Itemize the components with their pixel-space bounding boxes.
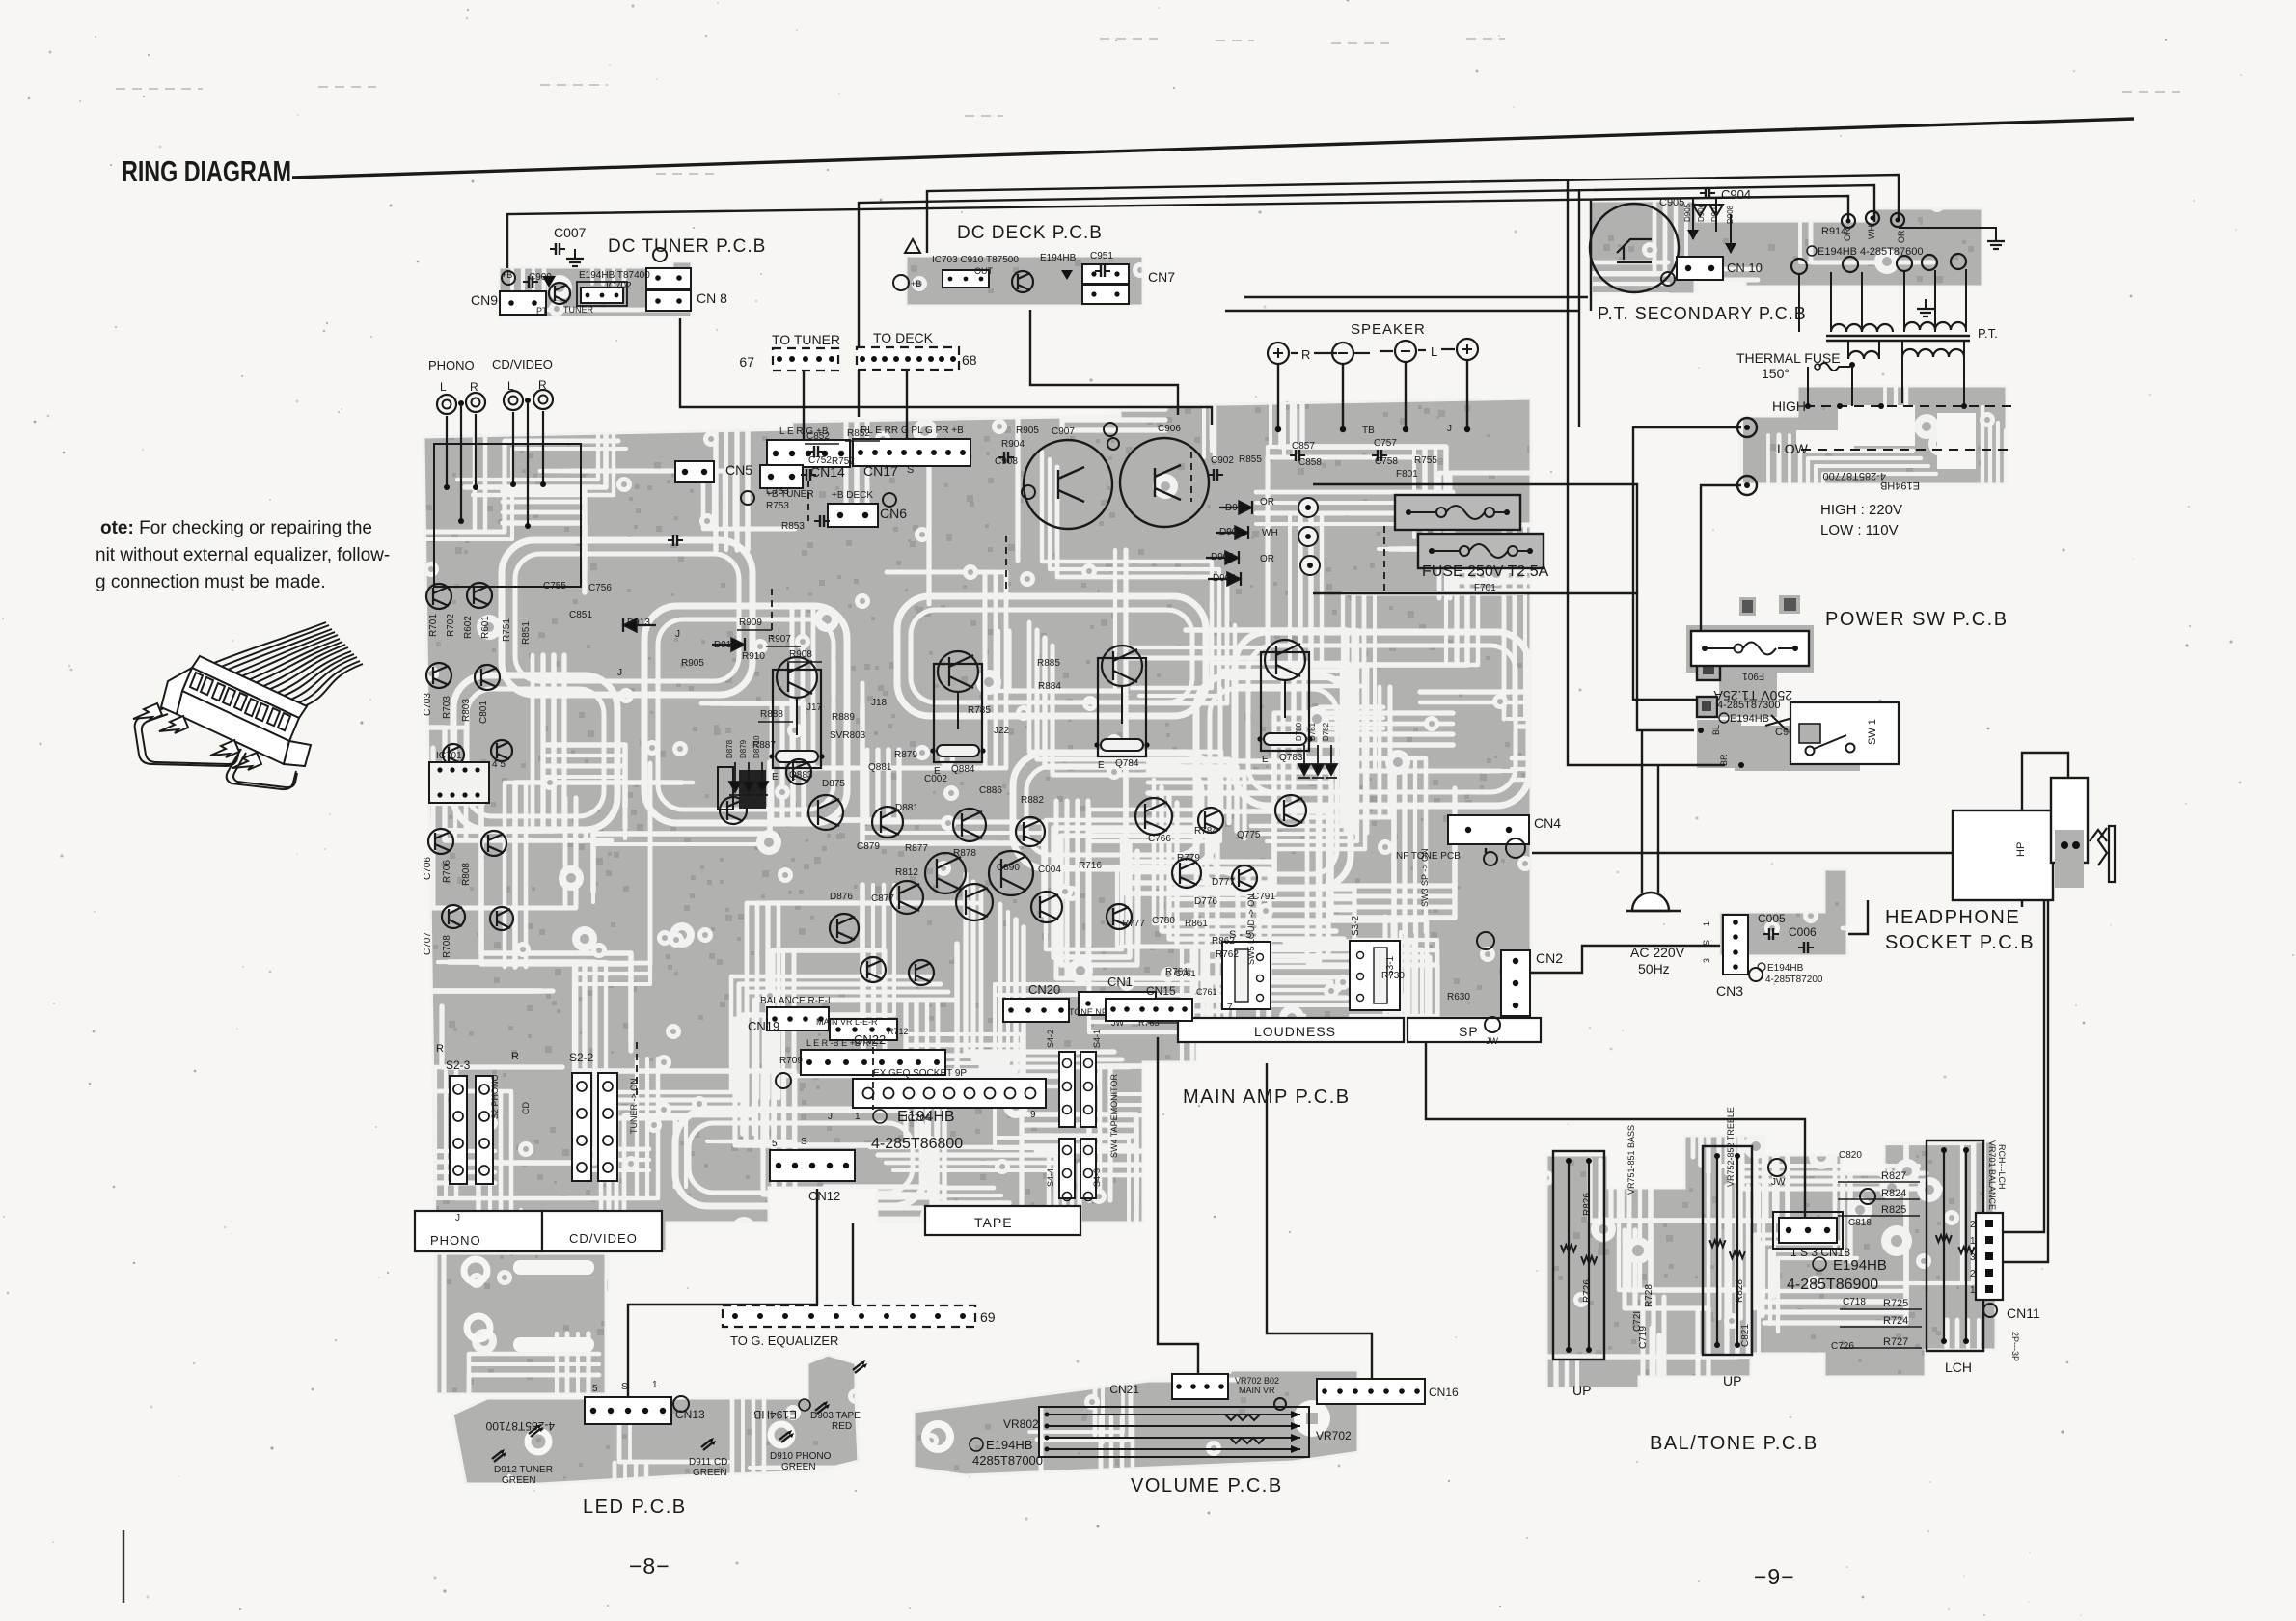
svg-text:R751: R751 <box>502 618 512 642</box>
svg-text:D908: D908 <box>1726 205 1735 224</box>
svg-text:3: 3 <box>1702 958 1711 963</box>
svg-text:CN13: CN13 <box>675 1408 705 1421</box>
svg-text:5: 5 <box>592 1384 598 1394</box>
svg-text:R826: R826 <box>1582 1193 1593 1216</box>
svg-text:SP: SP <box>1459 1024 1479 1039</box>
svg-text:R825: R825 <box>1881 1204 1906 1216</box>
svg-text:C818: C818 <box>1848 1218 1872 1228</box>
svg-text:CN17: CN17 <box>863 463 898 479</box>
svg-text:4285T87000: 4285T87000 <box>972 1453 1043 1468</box>
svg-text:C004: C004 <box>1038 865 1061 875</box>
svg-text:E: E <box>772 772 779 783</box>
svg-text:R716: R716 <box>1079 861 1102 871</box>
svg-text:R: R <box>1301 347 1310 362</box>
svg-text:E194HB: E194HB <box>1730 713 1769 725</box>
svg-text:C005: C005 <box>1758 912 1786 925</box>
svg-text:R908: R908 <box>789 649 812 660</box>
svg-text:D879: D879 <box>739 739 748 758</box>
svg-text:F701: F701 <box>1474 583 1496 593</box>
svg-text:C780: C780 <box>1152 916 1175 926</box>
svg-text:VR702 B02: VR702 B02 <box>1235 1376 1279 1386</box>
svg-text:BR: BR <box>1719 754 1729 766</box>
svg-text:LED P.C.B: LED P.C.B <box>583 1497 687 1518</box>
svg-text:L: L <box>440 380 447 394</box>
svg-text:RL E RR G PL G PR +B: RL E RR G PL G PR +B <box>861 426 964 436</box>
svg-text:150°: 150° <box>1762 366 1790 381</box>
svg-text:C766: C766 <box>1148 834 1171 844</box>
svg-text:F801: F801 <box>1396 469 1418 480</box>
svg-text:J18: J18 <box>871 698 888 708</box>
svg-text:R630: R630 <box>1447 992 1470 1003</box>
svg-text:R852: R852 <box>847 428 870 439</box>
svg-text:R884: R884 <box>1038 681 1061 692</box>
svg-text:C908: C908 <box>995 456 1018 467</box>
svg-text:R882: R882 <box>1021 795 1044 806</box>
svg-text:9: 9 <box>1030 1110 1036 1120</box>
svg-text:4-285T86900: 4-285T86900 <box>1787 1277 1878 1293</box>
svg-text:ote: For checking or repair: ote: For checking or repairing the <box>100 518 372 538</box>
svg-text:D776: D776 <box>1194 896 1217 907</box>
svg-text:D912 TUNER: D912 TUNER <box>494 1465 553 1475</box>
svg-text:J: J <box>617 668 622 678</box>
svg-text:HP: HP <box>2015 842 2027 857</box>
svg-text:WH: WH <box>1262 528 1278 538</box>
svg-text:S: S <box>1702 940 1711 946</box>
svg-text:TO G. EQUALIZER: TO G. EQUALIZER <box>730 1333 838 1348</box>
svg-text:C890: C890 <box>997 863 1020 873</box>
svg-text:R701: R701 <box>428 614 439 637</box>
svg-text:S4-1: S4-1 <box>1092 1030 1102 1048</box>
svg-text:CN7: CN7 <box>1148 269 1175 285</box>
svg-text:D777: D777 <box>1212 877 1235 888</box>
svg-text:CN9: CN9 <box>471 292 498 308</box>
svg-text:C909: C909 <box>529 272 552 283</box>
svg-text:C877: C877 <box>871 893 894 904</box>
svg-text:67: 67 <box>739 354 754 370</box>
svg-text:MAIN VR: MAIN VR <box>1239 1386 1275 1395</box>
svg-text:C752: C752 <box>808 455 832 466</box>
svg-text:1: 1 <box>652 1380 658 1390</box>
svg-text:OR: OR <box>1897 230 1906 243</box>
svg-text:CN 8: CN 8 <box>697 290 727 306</box>
svg-text:RED: RED <box>832 1421 852 1432</box>
svg-text:C879: C879 <box>857 841 880 852</box>
svg-text:JW: JW <box>1486 1036 1499 1046</box>
svg-text:R828: R828 <box>1735 1279 1745 1303</box>
svg-text:J17: J17 <box>806 702 823 713</box>
svg-text:R862: R862 <box>1212 936 1235 947</box>
svg-text:D782: D782 <box>1322 722 1330 741</box>
svg-text:D901: D901 <box>1225 503 1248 513</box>
svg-text:R702: R702 <box>446 614 456 637</box>
svg-text:OR: OR <box>1260 554 1274 564</box>
svg-text:C002: C002 <box>924 774 947 784</box>
svg-text:SVR803: SVR803 <box>830 730 866 741</box>
svg-text:C719: C719 <box>1638 1326 1649 1349</box>
svg-text:SW 1: SW 1 <box>1867 719 1878 745</box>
svg-text:CD: CD <box>521 1102 531 1114</box>
svg-text:R905: R905 <box>1016 426 1039 436</box>
svg-text:C820: C820 <box>1839 1150 1862 1161</box>
svg-text:R851: R851 <box>521 621 532 645</box>
svg-text:g connection must be made.: g connection must be made. <box>96 572 326 592</box>
svg-text:2P---3P: 2P---3P <box>2010 1332 2020 1361</box>
svg-text:2: 2 <box>1970 1220 1976 1230</box>
svg-text:CN3: CN3 <box>1716 983 1743 999</box>
svg-text:EX GEQ SOCKET 9P: EX GEQ SOCKET 9P <box>873 1068 967 1079</box>
svg-text:R602: R602 <box>463 616 474 639</box>
svg-text:SPEAKER: SPEAKER <box>1351 321 1426 338</box>
svg-text:R: R <box>511 1051 519 1062</box>
svg-text:FUSE 250V T2 5A: FUSE 250V T2 5A <box>1422 563 1549 580</box>
svg-text:C755: C755 <box>543 581 566 591</box>
svg-text:GREEN: GREEN <box>781 1462 816 1472</box>
svg-text:R724: R724 <box>1883 1315 1908 1327</box>
svg-text:NF TONE PCB: NF TONE PCB <box>1396 851 1461 862</box>
svg-text:R752: R752 <box>832 456 855 467</box>
svg-text:Q881: Q881 <box>868 762 892 773</box>
svg-text:RING DIAGRAM: RING DIAGRAM <box>122 154 291 188</box>
svg-text:R785: R785 <box>968 705 991 716</box>
svg-text:OUT: OUT <box>974 266 994 276</box>
svg-text:R: R <box>470 380 478 394</box>
svg-text:CN5: CN5 <box>725 462 752 478</box>
svg-text:HEADPHONE: HEADPHONE <box>1885 907 2020 928</box>
svg-text:D876: D876 <box>830 892 853 902</box>
svg-text:4 5: 4 5 <box>492 759 506 770</box>
svg-text:R887: R887 <box>752 740 776 751</box>
svg-text:CN21: CN21 <box>1109 1383 1139 1396</box>
svg-text:−8−: −8− <box>629 1553 670 1579</box>
svg-text:C858: C858 <box>1298 457 1322 468</box>
svg-text:POWER SW P.C.B: POWER SW P.C.B <box>1825 609 2009 630</box>
svg-text:S4-2: S4-2 <box>1046 1030 1055 1048</box>
svg-text:S4-3: S4-3 <box>1092 1168 1102 1187</box>
svg-text:R808: R808 <box>461 863 472 886</box>
svg-text:C761: C761 <box>1196 987 1217 997</box>
svg-text:R728: R728 <box>1644 1284 1654 1307</box>
svg-text:L: L <box>1431 344 1437 359</box>
svg-text:C791: C791 <box>1252 892 1275 902</box>
svg-text:LOUDNESS: LOUDNESS <box>1254 1024 1336 1039</box>
svg-text:R712: R712 <box>888 1027 909 1036</box>
svg-text:IC702: IC702 <box>606 281 632 291</box>
svg-text:D878: D878 <box>725 739 734 758</box>
svg-text:2: 2 <box>1970 1269 1976 1279</box>
svg-text:R755: R755 <box>1414 455 1437 466</box>
svg-text:R827: R827 <box>1881 1170 1906 1182</box>
svg-text:S: S <box>801 1137 807 1147</box>
svg-text:UP: UP <box>1723 1373 1741 1388</box>
svg-text:C718: C718 <box>1843 1297 1866 1307</box>
svg-text:C905: C905 <box>1659 197 1684 208</box>
svg-text:L E R -B E +B R E: L E R -B E +B R E <box>806 1038 877 1048</box>
svg-text:C006: C006 <box>1789 925 1817 939</box>
svg-text:Q784: Q784 <box>1115 758 1139 769</box>
svg-text:D913: D913 <box>627 618 650 628</box>
svg-text:C907: C907 <box>1052 426 1075 437</box>
svg-text:4-285T87700: 4-285T87700 <box>1823 470 1886 481</box>
svg-text:VR702: VR702 <box>1316 1429 1352 1442</box>
svg-text:1: 1 <box>1702 921 1711 926</box>
svg-text:LCH: LCH <box>1945 1360 1972 1375</box>
svg-text:CN6: CN6 <box>880 506 907 521</box>
svg-text:E194HB: E194HB <box>1767 963 1804 974</box>
svg-text:C886: C886 <box>979 785 1002 796</box>
svg-text:50Hz: 50Hz <box>1638 961 1670 976</box>
svg-text:R761: R761 <box>1165 967 1189 977</box>
svg-text:R725: R725 <box>1883 1298 1908 1309</box>
svg-text:C851: C851 <box>569 610 592 620</box>
svg-text:68: 68 <box>962 352 977 368</box>
svg-text:TO DECK: TO DECK <box>873 330 934 345</box>
svg-text:+B DECK: +B DECK <box>832 490 873 501</box>
svg-text:1: 1 <box>855 1112 861 1122</box>
svg-text:MAIN AMP P.C.B: MAIN AMP P.C.B <box>1183 1086 1351 1108</box>
svg-text:R855: R855 <box>1239 454 1262 465</box>
svg-text:UP: UP <box>1572 1383 1591 1398</box>
svg-text:R803: R803 <box>461 699 472 722</box>
svg-text:D906: D906 <box>1697 203 1706 222</box>
svg-text:CD/VIDEO: CD/VIDEO <box>492 357 553 371</box>
svg-text:R753: R753 <box>766 501 789 511</box>
svg-text:R904: R904 <box>1001 439 1025 450</box>
svg-text:D781: D781 <box>1308 722 1317 741</box>
svg-text:E194HB: E194HB <box>1880 480 1920 491</box>
svg-text:4-285T87200: 4-285T87200 <box>1765 975 1823 985</box>
svg-text:TUNER: TUNER <box>563 305 593 315</box>
svg-text:C821: C821 <box>1740 1324 1751 1347</box>
svg-text:CN1: CN1 <box>1107 975 1133 989</box>
svg-text:CN4: CN4 <box>1534 815 1561 831</box>
svg-text:C906: C906 <box>1158 424 1181 434</box>
svg-text:D903: D903 <box>1211 552 1234 563</box>
svg-text:JW: JW <box>1771 1177 1786 1188</box>
svg-text:MAIN VR L-E-R: MAIN VR L-E-R <box>816 1017 878 1027</box>
svg-text:R812: R812 <box>895 867 918 878</box>
svg-text:D902: D902 <box>1219 527 1243 537</box>
svg-text:E194HB: E194HB <box>1040 253 1077 263</box>
svg-text:BL: BL <box>1711 725 1721 735</box>
svg-text:4-285T87100: 4-285T87100 <box>485 1419 555 1433</box>
svg-text:S4-4: S4-4 <box>1046 1168 1055 1187</box>
svg-text:D905: D905 <box>1683 203 1692 222</box>
svg-text:R885: R885 <box>1037 658 1060 669</box>
svg-text:C756: C756 <box>588 583 612 593</box>
svg-text:HIGH: HIGH <box>1772 398 1806 414</box>
svg-text:C007: C007 <box>554 225 587 240</box>
svg-text:R: R <box>436 1043 444 1055</box>
svg-text:E194HB: E194HB <box>897 1109 955 1125</box>
svg-text:D907: D907 <box>1710 203 1719 222</box>
svg-text:D875: D875 <box>822 779 845 789</box>
svg-text:D904: D904 <box>1213 573 1236 584</box>
svg-text:R853: R853 <box>781 521 805 532</box>
svg-text:J: J <box>675 629 680 640</box>
svg-text:D910 PHONO: D910 PHONO <box>770 1451 832 1462</box>
svg-text:TO TUNER: TO TUNER <box>772 332 840 347</box>
svg-text:VR751-851 BASS: VR751-851 BASS <box>1626 1125 1636 1195</box>
svg-text:F901: F901 <box>1742 671 1764 681</box>
svg-text:C757: C757 <box>1374 438 1397 449</box>
svg-text:1: 1 <box>1970 1236 1976 1247</box>
svg-text:E: E <box>1098 760 1105 771</box>
svg-text:TAPE: TAPE <box>974 1215 1013 1230</box>
svg-text:R909: R909 <box>739 618 762 628</box>
svg-text:VR752-852 TREBLE: VR752-852 TREBLE <box>1726 1107 1736 1187</box>
svg-text:DC TUNER P.C.B: DC TUNER P.C.B <box>608 236 766 257</box>
svg-text:RCH---LCH: RCH---LCH <box>1997 1144 2007 1190</box>
svg-text:1: 1 <box>1970 1285 1976 1296</box>
svg-text:D914: D914 <box>714 640 737 650</box>
svg-text:C726: C726 <box>1831 1341 1854 1352</box>
svg-text:R910: R910 <box>742 651 765 662</box>
svg-text:SW5 LOUD -> ON: SW5 LOUD -> ON <box>1246 893 1256 965</box>
svg-text:R706: R706 <box>442 860 452 883</box>
svg-text:nit without external equalizer: nit without external equalizer, follow- <box>96 545 390 565</box>
svg-text:5: 5 <box>772 1139 778 1149</box>
svg-text:J: J <box>1447 424 1452 434</box>
svg-text:S2-3: S2-3 <box>446 1058 471 1072</box>
svg-text:TUNER -> ON: TUNER -> ON <box>629 1078 639 1134</box>
svg-text:IC701: IC701 <box>436 751 462 761</box>
svg-text:4-285T86800: 4-285T86800 <box>871 1136 963 1152</box>
svg-text:OR: OR <box>1260 497 1274 508</box>
svg-text:R709: R709 <box>779 1056 803 1066</box>
svg-text:BAL/TONE P.C.B: BAL/TONE P.C.B <box>1650 1433 1818 1454</box>
svg-text:PT: PT <box>536 306 548 316</box>
svg-text:VR701 BALANCE: VR701 BALANCE <box>1987 1140 1997 1210</box>
svg-text:E194HB: E194HB <box>986 1438 1032 1452</box>
svg-text:R861: R861 <box>1185 919 1208 929</box>
svg-text:Q783: Q783 <box>1279 753 1303 763</box>
svg-text:PHONO: PHONO <box>430 1233 481 1248</box>
svg-text:R907: R907 <box>768 634 791 645</box>
svg-text:R730: R730 <box>1381 971 1405 981</box>
svg-text:P.T. SECONDARY P.C.B: P.T. SECONDARY P.C.B <box>1598 304 1807 323</box>
svg-text:R601: R601 <box>480 616 491 639</box>
svg-text:BALANCE R-E-L: BALANCE R-E-L <box>760 996 834 1006</box>
svg-text:CN 10: CN 10 <box>1727 261 1763 275</box>
svg-text:CN16: CN16 <box>1429 1386 1459 1399</box>
svg-text:S2 PHONO: S2 PHONO <box>490 1074 500 1119</box>
svg-text:HIGH : 220V: HIGH : 220V <box>1820 502 1902 518</box>
svg-text:+B: +B <box>911 279 921 288</box>
svg-text:C753: C753 <box>766 486 789 497</box>
svg-text:69: 69 <box>980 1309 996 1325</box>
svg-text:CN20: CN20 <box>1028 982 1060 997</box>
svg-text:R879: R879 <box>894 750 917 760</box>
svg-text:R784: R784 <box>1194 826 1217 837</box>
svg-text:IC703 C910 T87500: IC703 C910 T87500 <box>932 255 1019 265</box>
svg-text:SOCKET P.C.B: SOCKET P.C.B <box>1885 932 2035 953</box>
svg-text:S3-2: S3-2 <box>1351 915 1361 936</box>
svg-text:P.T.: P.T. <box>1978 326 1998 341</box>
svg-text:R878: R878 <box>953 848 976 859</box>
svg-text:S: S <box>621 1382 628 1392</box>
svg-text:S2-2: S2-2 <box>569 1051 594 1064</box>
svg-text:DC DECK P.C.B: DC DECK P.C.B <box>957 223 1103 243</box>
svg-text:C801: C801 <box>478 701 489 724</box>
svg-text:E194HB T87400: E194HB T87400 <box>579 270 650 281</box>
svg-text:OR: OR <box>1843 228 1852 241</box>
svg-text:VOLUME P.C.B: VOLUME P.C.B <box>1131 1475 1283 1497</box>
svg-text:C706: C706 <box>423 857 433 880</box>
svg-text:−9−: −9− <box>1754 1564 1795 1589</box>
svg-text:R727: R727 <box>1883 1336 1908 1348</box>
svg-text:CN15: CN15 <box>1146 984 1176 998</box>
svg-text:SW4 TAPEMONITOR: SW4 TAPEMONITOR <box>1109 1073 1119 1158</box>
svg-text:CN11: CN11 <box>2007 1305 2040 1321</box>
svg-text:R779: R779 <box>1177 853 1200 864</box>
svg-text:D881: D881 <box>895 803 918 813</box>
svg-text:D903 TAPE: D903 TAPE <box>810 1411 861 1421</box>
svg-text:4-285T87300: 4-285T87300 <box>1717 700 1780 711</box>
svg-text:C902: C902 <box>1211 455 1234 466</box>
svg-text:R703: R703 <box>442 696 452 719</box>
svg-text:CN19: CN19 <box>748 1019 779 1033</box>
svg-text:D911 CD: D911 CD <box>689 1457 727 1468</box>
svg-text:3: 3 <box>1970 1252 1976 1263</box>
svg-text:VR802: VR802 <box>1003 1417 1039 1431</box>
svg-text:CN12: CN12 <box>808 1189 840 1203</box>
svg-text:E194HB: E194HB <box>753 1408 797 1421</box>
svg-text:R824: R824 <box>1881 1188 1906 1199</box>
svg-text:R889: R889 <box>832 712 855 723</box>
svg-text:+B: +B <box>502 270 512 280</box>
svg-text:Q775: Q775 <box>1237 830 1261 840</box>
svg-text:E: E <box>1262 755 1269 765</box>
svg-text:CD/VIDEO: CD/VIDEO <box>569 1231 638 1246</box>
svg-text:C703: C703 <box>423 693 433 716</box>
svg-text:C852: C852 <box>806 431 830 442</box>
svg-text:C904: C904 <box>1721 187 1751 202</box>
svg-text:CN2: CN2 <box>1536 950 1563 966</box>
svg-text:C707: C707 <box>423 932 433 955</box>
svg-text:J: J <box>828 1112 833 1122</box>
svg-text:7: 7 <box>1227 1003 1233 1013</box>
svg-text:TB: TB <box>1362 426 1375 436</box>
svg-text:C951: C951 <box>1090 251 1113 261</box>
svg-text:S: S <box>907 464 914 476</box>
svg-text:Q884: Q884 <box>951 764 975 775</box>
svg-text:AC 220V: AC 220V <box>1630 945 1685 960</box>
svg-text:R888: R888 <box>760 709 783 720</box>
svg-text:R726: R726 <box>1582 1279 1593 1303</box>
svg-text:R905: R905 <box>681 658 704 669</box>
svg-text:GREEN: GREEN <box>502 1475 536 1486</box>
svg-text:GREEN: GREEN <box>693 1468 727 1478</box>
svg-text:E194HB: E194HB <box>1833 1257 1887 1274</box>
svg-text:J22: J22 <box>994 726 1010 736</box>
svg-text:R877: R877 <box>905 843 928 854</box>
svg-text:J: J <box>455 1213 460 1223</box>
svg-text:D780: D780 <box>1295 722 1303 741</box>
svg-text:R762: R762 <box>1216 949 1239 960</box>
svg-text:PHONO: PHONO <box>428 358 475 372</box>
svg-text:R777: R777 <box>1122 919 1145 929</box>
svg-text:R708: R708 <box>442 935 452 958</box>
svg-text:LOW : 110V: LOW : 110V <box>1820 522 1899 538</box>
svg-text:WH: WH <box>1867 225 1876 239</box>
